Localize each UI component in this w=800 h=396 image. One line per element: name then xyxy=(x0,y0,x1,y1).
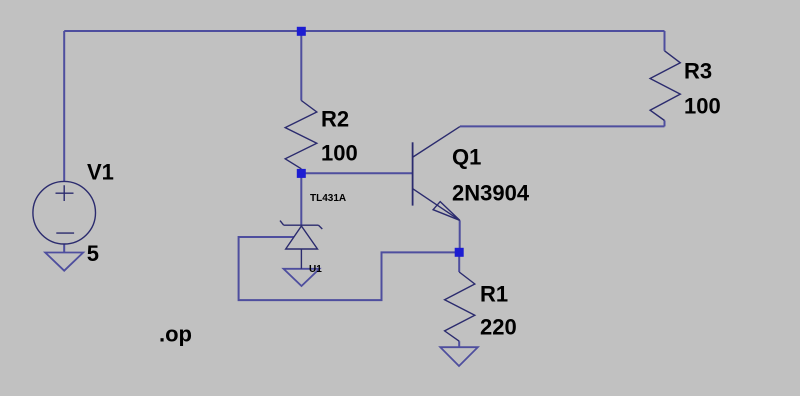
svg-text:100: 100 xyxy=(684,93,721,118)
wire R3 bottom lead xyxy=(664,121,666,127)
wire R2 top lead from rail junction xyxy=(300,31,302,101)
wire top rail from V1 to R3 xyxy=(64,30,664,32)
wire R3 top lead from rail xyxy=(664,31,666,51)
wire junction down to U1 cathode xyxy=(300,173,302,225)
TL431 U1 cathode bar xyxy=(284,224,319,226)
svg-text:2N3904: 2N3904 xyxy=(452,180,530,205)
wire base: R2 junction to Q1 base xyxy=(301,172,412,174)
TL431 U1 cathode right tick xyxy=(319,225,323,229)
ground under R1 xyxy=(440,347,478,366)
svg-text:Q1: Q1 xyxy=(452,144,481,169)
transistor Q1 collector diagonal xyxy=(413,127,460,157)
resistor R1 zigzag xyxy=(445,272,475,341)
transistor Q1 emitter diagonal xyxy=(413,189,460,221)
svg-text:R3: R3 xyxy=(684,58,712,83)
ground under V1 xyxy=(45,253,83,271)
node junction on top rail xyxy=(297,27,306,36)
node junction emitter/R1/ref xyxy=(455,248,464,257)
transistor Q1 emitter arrow xyxy=(433,202,460,221)
wire Q1 collector to R3 bottom xyxy=(460,125,665,127)
TL431 U1 cathode left tick xyxy=(280,221,284,226)
wire R1 top lead xyxy=(458,252,460,272)
svg-text:100: 100 xyxy=(321,141,358,166)
voltage source V1 circle xyxy=(33,181,96,244)
wire left drop from rail to V1 plus xyxy=(63,31,65,182)
TL431 U1 anode lead xyxy=(300,249,302,269)
resistor R3 zigzag xyxy=(650,51,680,121)
wire R2 bottom to junction xyxy=(300,169,302,178)
node junction R2/base/U1 xyxy=(297,169,306,178)
svg-text:R2: R2 xyxy=(321,106,349,131)
wire R1 bottom to ground xyxy=(458,341,460,347)
V1 plus sign xyxy=(56,185,74,201)
svg-text:.op: .op xyxy=(159,321,192,346)
svg-text:5: 5 xyxy=(87,241,99,266)
svg-text:V1: V1 xyxy=(87,160,114,185)
ground under U1 xyxy=(284,269,320,286)
TL431 U1 triangle xyxy=(286,226,318,249)
svg-text:TL431A: TL431A xyxy=(310,193,346,204)
svg-text:U1: U1 xyxy=(309,264,322,275)
V1 minus sign xyxy=(56,232,74,234)
wire V1 minus to ground xyxy=(63,244,65,253)
svg-text:R1: R1 xyxy=(480,281,508,306)
resistor R2 zigzag xyxy=(285,101,317,169)
svg-text:220: 220 xyxy=(480,315,517,340)
transistor Q1 base bar xyxy=(412,142,414,205)
wire U1 ref loop to emitter node xyxy=(239,237,459,300)
wire Q1 emitter to node xyxy=(459,220,461,252)
